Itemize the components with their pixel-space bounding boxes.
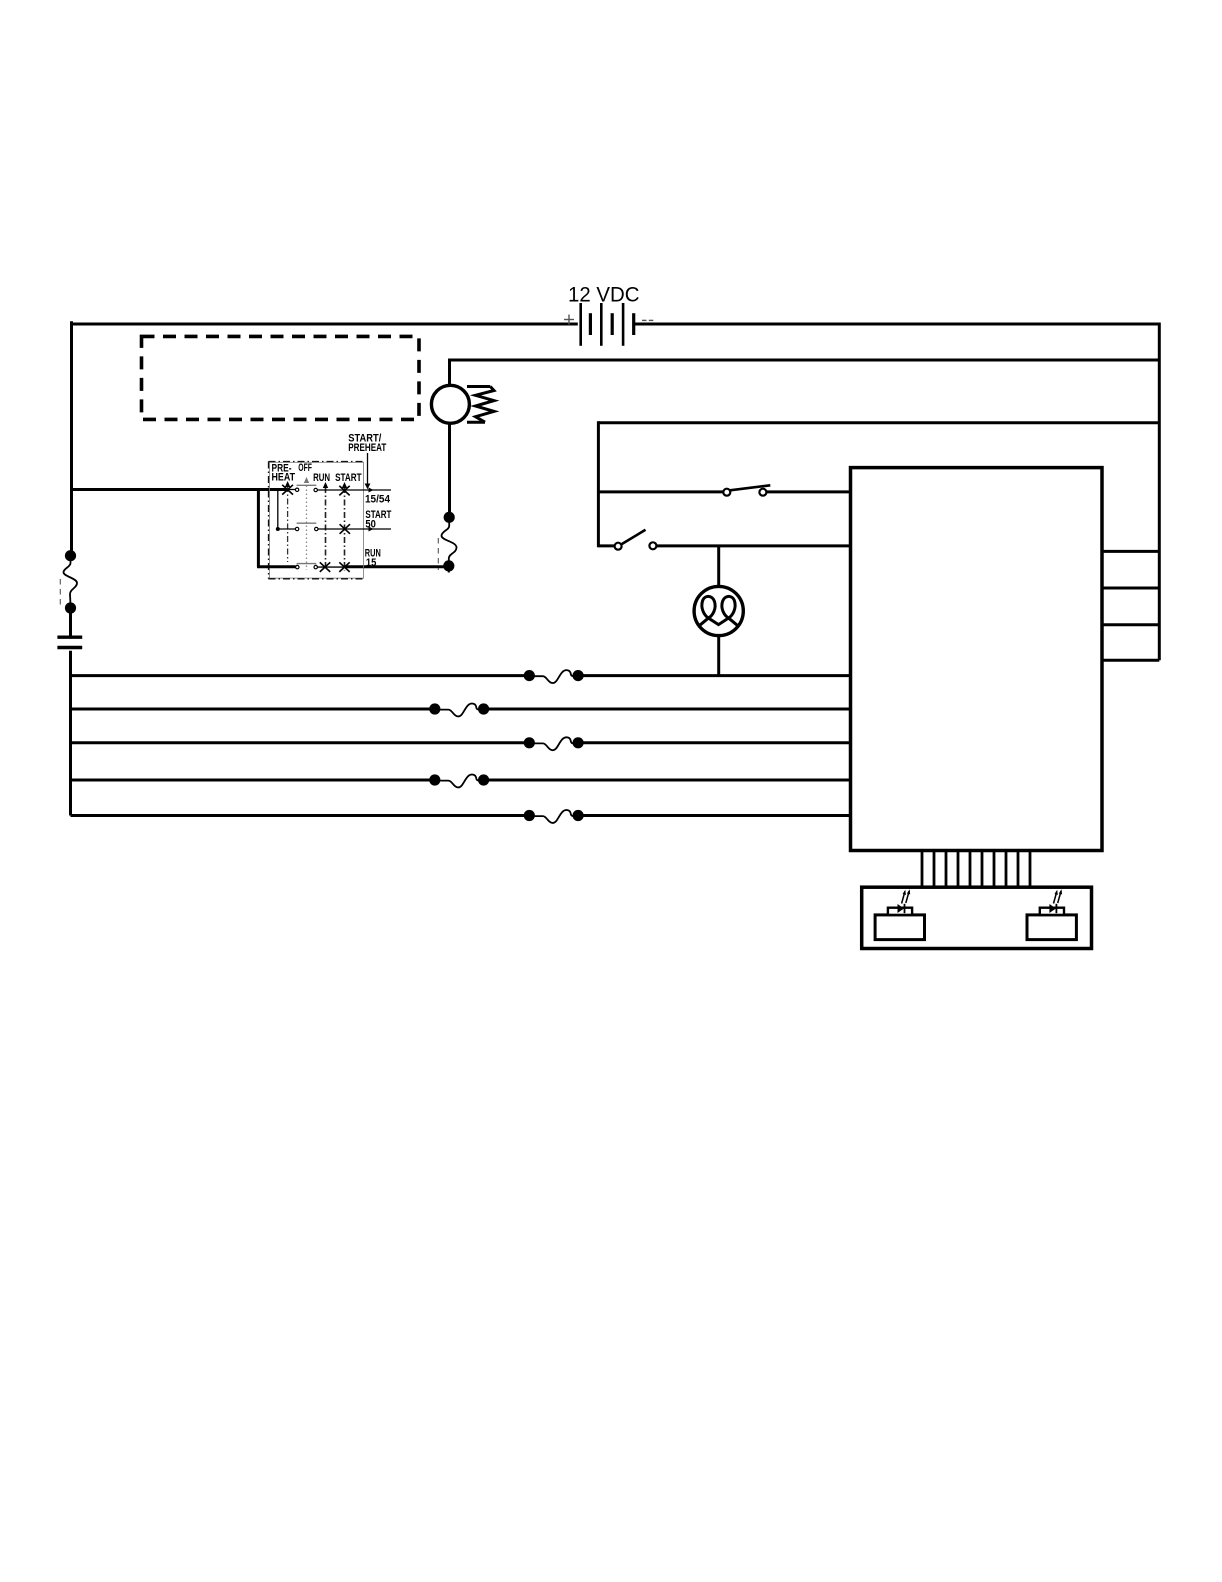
svg-text:15: 15 <box>366 557 377 569</box>
svg-text:START: START <box>335 472 362 484</box>
svg-text:RUN: RUN <box>313 472 330 484</box>
svg-text:PREHEAT: PREHEAT <box>348 442 386 454</box>
svg-text:HEAT: HEAT <box>272 471 296 483</box>
svg-text:OFF: OFF <box>298 462 312 474</box>
svg-text:50: 50 <box>365 518 376 530</box>
svg-text:15/54: 15/54 <box>365 494 390 506</box>
svg-text:12 VDC: 12 VDC <box>568 284 640 307</box>
